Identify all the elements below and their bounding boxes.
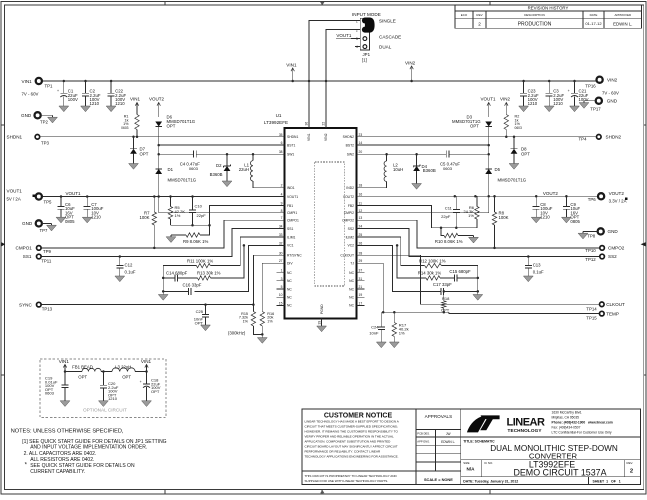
- capacitor C16: [163, 282, 202, 295]
- wire BST2 node (D3/D5/C5 vertical): [488, 127, 490, 170]
- svg-text:1: 1: [281, 269, 283, 273]
- svg-text:VIN1: VIN1: [59, 359, 70, 364]
- test point TP3 (SHDN1): [7, 135, 50, 146]
- svg-text:OPT: OPT: [78, 375, 87, 380]
- svg-text:VERIFY PROPER AND RELIABLE OPE: VERIFY PROPER AND RELIABLE OPERATION IN …: [305, 434, 395, 438]
- svg-text:APP ENG.: APP ENG.: [417, 440, 430, 444]
- node (rail junctions): [63, 80, 576, 83]
- wire TEMP (TJ node to TP15): [449, 312, 599, 313]
- svg-text:CMPO1: CMPO1: [16, 246, 33, 251]
- capacitor C22: [108, 81, 127, 106]
- svg-text:1210: 1210: [91, 215, 101, 220]
- svg-text:BST2: BST2: [346, 143, 355, 147]
- ground (TP8): [578, 231, 588, 239]
- node (BST2 junctions): [487, 144, 490, 156]
- U1 left pin names and numbers: [277, 133, 303, 308]
- svg-text:IND1: IND1: [287, 186, 295, 190]
- svg-text:TEMP: TEMP: [606, 311, 619, 316]
- svg-text:TP11: TP11: [41, 259, 52, 264]
- svg-text:VIN1: VIN1: [22, 79, 33, 84]
- wire CMPO2 (U1 pin 13 to TP10): [357, 220, 600, 249]
- ground (TP2): [48, 115, 58, 123]
- svg-text:27: 27: [279, 259, 283, 263]
- svg-text:21: 21: [359, 285, 363, 289]
- capacitor C18: [140, 372, 161, 401]
- svg-text:VOUT1: VOUT1: [336, 33, 352, 38]
- svg-text:CLKOUT: CLKOUT: [340, 254, 354, 258]
- svg-text:JW: JW: [446, 432, 451, 436]
- svg-text:28: 28: [359, 251, 363, 255]
- wire CMPI2 (U1 pin 12 to rail): [357, 196, 489, 213]
- capacitor C17: [433, 282, 478, 295]
- svg-text:1210: 1210: [115, 101, 125, 106]
- ground (C9): [562, 217, 572, 223]
- svg-text:+: +: [57, 89, 59, 93]
- svg-text:CMPO2: CMPO2: [342, 219, 354, 223]
- capacitor C3: [546, 81, 565, 106]
- svg-text:OPT: OPT: [470, 124, 479, 129]
- svg-text:C15 680pF: C15 680pF: [449, 269, 471, 274]
- svg-text:FB1 BEAD: FB1 BEAD: [72, 364, 93, 369]
- svg-text:1630 McCarthy Blvd.: 1630 McCarthy Blvd.: [552, 410, 583, 414]
- svg-text:TP1: TP1: [45, 84, 54, 89]
- wire SW2 (U1 pin 20 to C5): [357, 153, 447, 155]
- ground (TP17): [579, 101, 589, 109]
- svg-text:R14 30k 1%: R14 30k 1%: [418, 271, 442, 276]
- svg-text:DIV: DIV: [287, 262, 293, 266]
- svg-text:SYNC: SYNC: [19, 302, 32, 307]
- svg-text:BST1: BST1: [287, 143, 296, 147]
- svg-text:SS1: SS1: [287, 227, 293, 231]
- wire VC1 (U1 pin 32 to C16 row): [194, 244, 284, 291]
- svg-text:AND INPUT VOLTAGE IMPLEMENTATI: AND INPUT VOLTAGE IMPLEMENTATION ORDER.: [30, 445, 147, 451]
- wire CLKOUT (U1 pin 28 to TP14): [357, 255, 600, 304]
- svg-text:32: 32: [279, 241, 283, 245]
- svg-text:THIS CIRCUIT IS PROPRIETARY TO: THIS CIRCUIT IS PROPRIETARY TO LINEAR TE…: [305, 474, 398, 478]
- svg-text:OPT: OPT: [151, 389, 160, 394]
- svg-text:VIN1: VIN1: [286, 62, 297, 67]
- ground (C21): [570, 106, 580, 112]
- svg-text:1%: 1%: [267, 319, 273, 323]
- svg-text:SHDN1: SHDN1: [287, 135, 298, 139]
- svg-text:C25: C25: [196, 309, 204, 314]
- test point TP11 (SS1): [23, 254, 52, 264]
- svg-text:CMPO2: CMPO2: [608, 246, 625, 251]
- capacitor C4: [159, 151, 201, 171]
- ground (R17): [389, 342, 399, 348]
- svg-text:24: 24: [359, 225, 363, 229]
- ground (C25): [201, 325, 211, 331]
- svg-text:CASCADE: CASCADE: [379, 34, 401, 39]
- ground (C1): [59, 106, 69, 112]
- svg-text:VOUT1: VOUT1: [481, 97, 497, 102]
- ground (comp network right): [473, 295, 483, 301]
- svg-text:VIN1: VIN1: [307, 133, 311, 141]
- svg-text:SCALE = NONE: SCALE = NONE: [424, 477, 453, 482]
- svg-text:Milpitas, CA 95035: Milpitas, CA 95035: [552, 415, 580, 419]
- svg-text:D5: D5: [495, 167, 501, 172]
- svg-text:18: 18: [359, 184, 363, 188]
- svg-text:0603: 0603: [515, 126, 523, 130]
- svg-text:L3 22uH: L3 22uH: [115, 364, 131, 369]
- svg-text:33: 33: [279, 233, 283, 237]
- svg-text:100K: 100K: [499, 215, 509, 220]
- node VOUT1 (rail tag): [66, 191, 82, 196]
- svg-text:C13: C13: [533, 263, 541, 268]
- svg-text:REV: REV: [476, 13, 482, 17]
- optional circuit dashed box: [40, 359, 166, 418]
- Linear Technology address: [552, 410, 613, 434]
- svg-text:OPT: OPT: [167, 124, 176, 129]
- resistor R6: [463, 196, 479, 228]
- ground (PGND): [317, 326, 327, 332]
- svg-text:R10 8.06K 1%: R10 8.06K 1%: [435, 239, 463, 244]
- wire (optional circuit top): [64, 370, 148, 373]
- svg-text:12: 12: [359, 209, 363, 213]
- svg-text:JP1: JP1: [363, 52, 371, 57]
- diode D1: [155, 167, 197, 197]
- test point TP12 (SS2): [585, 254, 617, 262]
- approvals box: [416, 414, 461, 482]
- svg-text:2: 2: [630, 468, 633, 474]
- svg-text:VIN1: VIN1: [141, 359, 152, 364]
- svg-text:R9 8.06K 1%: R9 8.06K 1%: [183, 239, 208, 244]
- svg-text:22pF: 22pF: [197, 213, 207, 218]
- svg-text:5V / 2A: 5V / 2A: [7, 197, 21, 202]
- svg-text:VIN2: VIN2: [500, 97, 511, 102]
- svg-text:PCB DES.: PCB DES.: [417, 432, 430, 436]
- svg-text:+: +: [140, 380, 142, 384]
- svg-text:CMPI1: CMPI1: [287, 211, 297, 215]
- ground (C23): [519, 106, 529, 112]
- svg-text:CIRCUIT BOARD LAYOUT MAY SIGNI: CIRCUIT BOARD LAYOUT MAY SIGNIFICANTLY A…: [305, 445, 398, 449]
- wire (VIN2 rail drop to U1 pin 22): [325, 81, 327, 128]
- svg-text:34: 34: [279, 225, 283, 229]
- ground (C24): [376, 342, 386, 348]
- svg-text:LT3992EFE: LT3992EFE: [264, 120, 288, 125]
- svg-text:TJ: TJ: [350, 262, 354, 266]
- ground (C22): [106, 106, 116, 112]
- svg-text:VOUT2: VOUT2: [343, 195, 354, 199]
- svg-text:TECHNOLOGY: TECHNOLOGY: [508, 428, 543, 433]
- ground (TP7): [47, 223, 57, 231]
- svg-text:C14 680pF: C14 680pF: [166, 270, 188, 275]
- wire BST2 (to U1 pin 14): [357, 144, 489, 146]
- svg-text:ILIM2: ILIM2: [346, 235, 355, 239]
- svg-text:OPT: OPT: [441, 307, 450, 312]
- svg-text:DATE: Tuesday, January 31, 20: DATE: Tuesday, January 31, 2012: [463, 479, 518, 483]
- resistor R9: [171, 225, 210, 244]
- svg-text:8: 8: [281, 209, 283, 213]
- capacitor C14: [163, 270, 187, 281]
- node VIN1 (rail tag): [286, 62, 297, 81]
- svg-text:IC NO.: IC NO.: [484, 461, 493, 465]
- svg-text:30: 30: [279, 251, 283, 255]
- svg-text:4: 4: [356, 45, 358, 49]
- resistor R12: [419, 258, 478, 267]
- capacitor C7: [84, 197, 104, 220]
- svg-text:3: 3: [281, 277, 283, 281]
- wire SYNC (TP13 to RT/SYNC riser): [41, 304, 253, 306]
- svg-text:GND: GND: [607, 98, 618, 103]
- svg-text:NC: NC: [349, 296, 354, 300]
- svg-text:U1: U1: [276, 113, 282, 118]
- svg-text:39: 39: [317, 321, 321, 325]
- wire SS1 (U1 pin 34 to TP11): [41, 229, 284, 258]
- test point TP15 (TEMP): [586, 311, 619, 320]
- svg-text:NC: NC: [287, 287, 292, 291]
- resistor R5: [168, 197, 185, 226]
- svg-text:11: 11: [359, 202, 363, 206]
- svg-text:0.1uF: 0.1uF: [533, 270, 544, 275]
- svg-text:OPT: OPT: [140, 151, 149, 156]
- capacitor C20: [100, 372, 119, 402]
- svg-text:MMSD701T1G: MMSD701T1G: [168, 178, 197, 183]
- wire (JP1 pin1 to VIN1 rail): [309, 21, 360, 82]
- svg-text:7V - 60V: 7V - 60V: [602, 91, 619, 96]
- wire FB2 (U1 pin 11 to divider node): [357, 206, 477, 230]
- svg-text:LTC Confidential-For Customer: LTC Confidential-For Customer Use Only: [552, 431, 612, 435]
- diode D4: [413, 154, 436, 183]
- title block frame: [302, 409, 640, 485]
- svg-text:C12: C12: [125, 263, 133, 268]
- svg-text:ILIM1: ILIM1: [287, 235, 296, 239]
- svg-text:R13 30k 1%: R13 30k 1%: [197, 270, 221, 275]
- wire VOUT2 rail (U1 pin 16 to TP6): [357, 195, 599, 197]
- svg-text:0603: 0603: [45, 391, 55, 396]
- svg-text:DUAL: DUAL: [379, 45, 392, 50]
- node (BST1 junctions): [157, 144, 160, 156]
- test point TP10 (CMPO2): [585, 246, 624, 254]
- resistor R11: [163, 258, 213, 267]
- svg-text:B360B: B360B: [423, 168, 436, 173]
- svg-text:TECHNOLOGY APPLICATIONS ENGINE: TECHNOLOGY APPLICATIONS ENGINEERING FOR …: [305, 455, 399, 459]
- svg-text:10: 10: [279, 293, 283, 297]
- svg-text:1210: 1210: [90, 101, 100, 106]
- capacitor C1: [57, 81, 78, 106]
- svg-text:VOUT1: VOUT1: [7, 189, 23, 194]
- svg-text:OPTIONAL CIRCUIT: OPTIONAL CIRCUIT: [83, 408, 127, 413]
- svg-text:REV.: REV.: [627, 461, 634, 465]
- U1 bottom pin PGND: [317, 304, 324, 326]
- svg-text:0805: 0805: [65, 219, 75, 224]
- svg-text:TP10: TP10: [585, 248, 596, 253]
- ground (C8): [531, 217, 541, 223]
- svg-text:C10: C10: [195, 204, 203, 209]
- svg-text:C24: C24: [371, 325, 379, 330]
- svg-text:0.1uF: 0.1uF: [125, 270, 136, 275]
- svg-text:16: 16: [359, 193, 363, 197]
- svg-text:MMSD701T1G: MMSD701T1G: [498, 178, 527, 183]
- node (VOUT2 rail junctions): [454, 195, 568, 198]
- svg-text:CIRCUIT THAT MEETS CUSTOMER-SU: CIRCUIT THAT MEETS CUSTOMER-SUPPLIED SPE…: [305, 424, 398, 428]
- svg-text:TP6: TP6: [588, 197, 597, 202]
- svg-text:VIN2: VIN2: [324, 133, 328, 141]
- svg-text:C11: C11: [445, 206, 453, 211]
- wire CMPO1 (U1 pin 7 to TP9): [41, 220, 284, 249]
- wire (left comp ground bus): [162, 266, 165, 295]
- svg-text:+: +: [568, 89, 570, 93]
- svg-text:NC: NC: [287, 296, 292, 300]
- test point TP7 (GND): [22, 220, 52, 233]
- svg-text:RT/SYNC: RT/SYNC: [287, 254, 302, 258]
- svg-text:C17 33pF: C17 33pF: [433, 282, 452, 287]
- svg-text:(300kHz): (300kHz): [228, 330, 246, 335]
- svg-text:TITLE: SCHEMATIC: TITLE: SCHEMATIC: [463, 439, 495, 443]
- ground (C13): [523, 276, 533, 282]
- svg-text:1%: 1%: [399, 331, 405, 336]
- svg-text:36: 36: [305, 122, 309, 126]
- test point TP2 (GND): [21, 112, 53, 124]
- svg-text:01-17-12: 01-17-12: [585, 21, 602, 26]
- svg-text:GND: GND: [21, 113, 32, 118]
- diode D6: [149, 97, 196, 129]
- wire IND1 (L1 to U1 pin 2): [253, 181, 285, 188]
- node (C25 junction): [204, 303, 207, 306]
- Linear Technology logo: [467, 415, 545, 433]
- svg-text:VOUT1: VOUT1: [66, 191, 82, 196]
- svg-text:7V - 60V: 7V - 60V: [22, 92, 39, 97]
- svg-text:FB2: FB2: [348, 204, 354, 208]
- node VOUT2 (rail tag): [543, 191, 559, 196]
- ground (D7): [129, 164, 139, 170]
- wire (JP1 pin4 stub): [355, 46, 360, 48]
- capacitor C2: [82, 81, 101, 106]
- resistor R14: [418, 271, 442, 281]
- resistor R1: [121, 97, 140, 137]
- jumper JP1 INPUT MODE: [352, 12, 401, 63]
- svg-text:PRODUCTION: PRODUCTION: [518, 22, 552, 28]
- ground (C6): [56, 217, 66, 223]
- border midpoint arrows: [1, 242, 5, 246]
- resistor R16: [260, 312, 274, 326]
- svg-text:TP13: TP13: [42, 307, 53, 312]
- wire SHDN2 (U1 to TP4): [357, 136, 597, 138]
- capacitor C5: [440, 151, 489, 171]
- svg-text:3: 3: [356, 37, 358, 41]
- capacitor C12: [116, 257, 136, 277]
- wire TJ (U1 pin 29 to C24/R17 node): [357, 263, 449, 313]
- diode D3: [452, 97, 496, 129]
- svg-text:APPLICATION. COMPONENT SUBSTI: APPLICATION. COMPONENT SUBSTITUTION AND …: [305, 440, 392, 444]
- wire (JP1 pin2 to VIN2 rail): [326, 30, 360, 81]
- notes text: [11, 429, 167, 476]
- svg-text:14: 14: [359, 141, 363, 145]
- svg-text:1%: 1%: [468, 213, 474, 218]
- ground (C7): [82, 217, 92, 223]
- svg-text:HOWEVER, IT REMAINS THE CUSTOM: HOWEVER, IT REMAINS THE CUSTOMER'S RESPO…: [305, 429, 399, 433]
- svg-text:26: 26: [359, 241, 363, 245]
- svg-text:CMPI2: CMPI2: [344, 211, 354, 215]
- svg-text:GND: GND: [608, 229, 619, 234]
- op-amp U1 LT3992EFE IC body: [264, 113, 357, 319]
- svg-text:2: 2: [478, 21, 481, 26]
- node VIN2 (rail tag): [405, 60, 416, 81]
- svg-text:SS2: SS2: [608, 254, 617, 259]
- wire (R13 branch riser): [211, 245, 244, 278]
- svg-text:NC: NC: [349, 279, 354, 283]
- svg-text:APPROVED: APPROVED: [614, 13, 632, 17]
- svg-text:0603: 0603: [121, 126, 129, 130]
- wire RT/SYNC (U1 pin 30 to SYNC line and R15): [252, 255, 284, 311]
- test point TP17 (GND): [584, 98, 618, 112]
- capacitor C13: [525, 257, 544, 277]
- svg-text:TP7: TP7: [40, 228, 49, 233]
- svg-text:TP8: TP8: [587, 234, 596, 239]
- svg-text:22: 22: [322, 122, 326, 126]
- svg-text:35: 35: [279, 133, 283, 137]
- svg-text:IND2: IND2: [346, 186, 354, 190]
- svg-text:22uH: 22uH: [239, 167, 249, 172]
- svg-text:SS2: SS2: [348, 227, 354, 231]
- ground (C3): [544, 106, 554, 112]
- svg-text:DEMO CIRCUIT 1537A: DEMO CIRCUIT 1537A: [513, 468, 606, 478]
- svg-text:PERFORMANCE OR RELIABILITY. C: PERFORMANCE OR RELIABILITY. CONTACT LINE…: [305, 450, 381, 454]
- svg-text:1%: 1%: [175, 213, 181, 218]
- svg-text:ALL RESISTORS ARE 0402.: ALL RESISTORS ARE 0402.: [30, 457, 94, 463]
- svg-text:TP12: TP12: [585, 257, 596, 262]
- svg-text:VC1: VC1: [287, 244, 294, 248]
- diode D8: [511, 137, 531, 164]
- svg-text:EDWIN L.: EDWIN L.: [441, 440, 455, 444]
- svg-text:CURRENT CAPABILITY.: CURRENT CAPABILITY.: [30, 469, 85, 475]
- svg-text:TP3: TP3: [41, 141, 50, 146]
- svg-text:R11 100K 1%: R11 100K 1%: [187, 258, 213, 263]
- svg-text:10nF: 10nF: [369, 331, 379, 336]
- svg-text:EDWIN L.: EDWIN L.: [613, 21, 632, 26]
- svg-text:APPROVALS: APPROVALS: [425, 414, 453, 419]
- node (SW1 junctions): [226, 153, 255, 156]
- ground (C2): [81, 106, 91, 112]
- svg-text:TP9: TP9: [43, 249, 52, 254]
- node VIN1 (optional circuit left tag): [59, 359, 70, 372]
- wire BST1 node (D6/D1/C4 vertical): [158, 127, 160, 170]
- svg-text:SUPPLIED FOR USE WITH LINEAR T: SUPPLIED FOR USE WITH LINEAR TECHNOLOGY …: [305, 479, 389, 483]
- svg-text:4: 4: [281, 193, 283, 197]
- diode D7: [130, 137, 149, 164]
- svg-text:TP5: TP5: [44, 200, 53, 205]
- svg-text:Phone: (408)432-1900 www.lin: Phone: (408)432-1900 www.linear.com: [552, 421, 613, 425]
- svg-text:SIZE: SIZE: [463, 461, 469, 465]
- svg-text:FB1: FB1: [287, 204, 293, 208]
- test point TP6 (VOUT2): [588, 191, 628, 203]
- svg-text:20: 20: [359, 150, 363, 154]
- svg-text:VOUT2: VOUT2: [609, 191, 625, 196]
- svg-text:SHDN1: SHDN1: [7, 135, 23, 140]
- ground (D4): [412, 184, 422, 190]
- capacitor C15: [440, 269, 478, 282]
- svg-text:SW2: SW2: [347, 153, 354, 157]
- customer notice: [302, 412, 416, 483]
- test point TP14 (CLKOUT): [586, 302, 625, 311]
- wire DIV (U1 pin 27 to R16): [262, 263, 284, 311]
- svg-text:CMPO1: CMPO1: [287, 219, 299, 223]
- svg-text:1210: 1210: [528, 101, 538, 106]
- svg-text:37: 37: [359, 269, 363, 273]
- capacitor C9: [563, 196, 581, 224]
- resistor R18: [441, 290, 450, 312]
- svg-text:23: 23: [359, 133, 363, 137]
- svg-text:VIN2: VIN2: [607, 77, 618, 82]
- wire (right comp ground bus): [477, 266, 480, 295]
- svg-text:1210: 1210: [540, 215, 550, 220]
- wire ILIM1 (U1 pin 33 to R11 row): [210, 237, 284, 266]
- svg-text:100V: 100V: [68, 97, 78, 102]
- svg-text:NC: NC: [287, 304, 292, 308]
- inductor L2: [384, 154, 403, 181]
- svg-text:DESCRIPTION: DESCRIPTION: [524, 13, 545, 17]
- svg-text:100K: 100K: [139, 215, 149, 220]
